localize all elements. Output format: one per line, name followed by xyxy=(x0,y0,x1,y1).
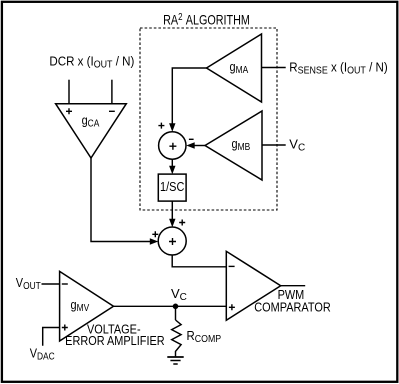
svg-text:1/SC: 1/SC xyxy=(160,179,185,194)
svg-text:gMA: gMA xyxy=(230,59,249,75)
svg-text:gMV: gMV xyxy=(71,297,90,313)
svg-text:VOUT: VOUT xyxy=(16,275,41,291)
svg-text:VDAC: VDAC xyxy=(30,346,55,362)
svg-text:VC: VC xyxy=(289,137,305,154)
svg-text:RCOMP: RCOMP xyxy=(187,328,222,344)
svg-text:COMPARATOR: COMPARATOR xyxy=(254,300,331,315)
svg-text:DCR x (IOUT / N): DCR x (IOUT / N) xyxy=(49,54,134,71)
svg-text:RA2 ALGORITHM: RA2 ALGORITHM xyxy=(163,11,250,28)
svg-text:gMB: gMB xyxy=(232,136,251,152)
svg-text:gCA: gCA xyxy=(82,113,101,129)
svg-text:RSENSE x (IOUT / N): RSENSE x (IOUT / N) xyxy=(289,60,387,77)
svg-text:VC: VC xyxy=(171,286,187,303)
svg-text:ERROR AMPLIFIER: ERROR AMPLIFIER xyxy=(65,333,165,348)
